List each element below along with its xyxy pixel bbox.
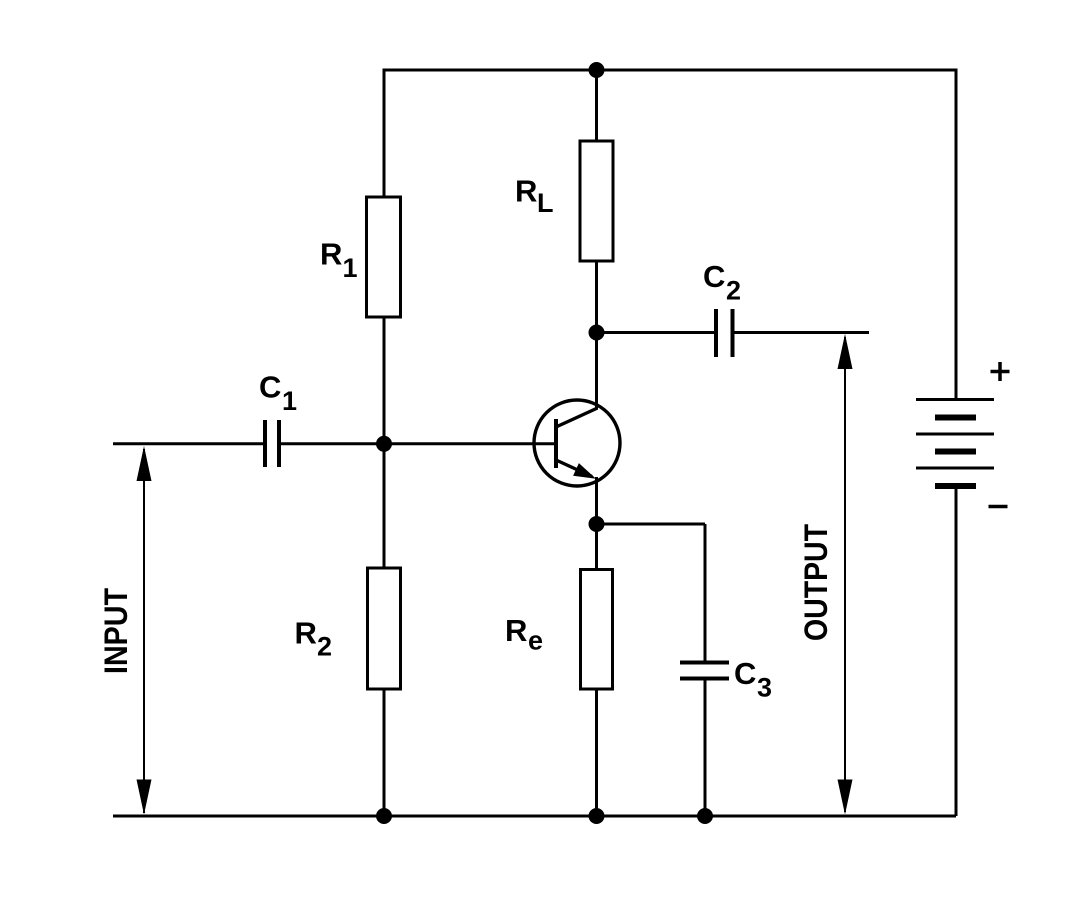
battery plus label [991,362,1010,381]
svg-text:C: C [703,259,725,294]
resistor Re [581,570,613,690]
wire R1 top branch [383,69,386,198]
wire C3 bottom lead [704,679,707,817]
resistor R2 [368,568,401,689]
svg-text:1: 1 [343,253,358,283]
node emitter junction dot [589,516,605,532]
svg-text:INPUT: INPUT [98,588,134,674]
svg-text:R: R [295,616,317,651]
wire C3 top lead [704,524,707,662]
wire output right segment [733,331,870,334]
wire output left segment [597,331,717,334]
wire emitter lead [595,477,598,570]
wire base lead [279,442,557,445]
svg-text:1: 1 [282,386,297,416]
wire input lead [113,442,265,445]
node base junction dot [376,436,392,452]
capacitor C1 [259,370,297,468]
wire R2 bottom lead [383,689,386,816]
battery minus label [989,505,1008,509]
transistor Q1 [534,400,620,486]
node ground junction dot R2 [376,808,392,824]
node ground junction dot C3 [697,808,713,824]
wire RL top branch [595,69,598,142]
svg-text:L: L [537,188,554,218]
svg-text:C: C [734,656,756,691]
wire Re bottom lead [595,689,598,816]
node Vcc junction dot top [589,62,605,78]
svg-text:3: 3 [757,673,772,703]
svg-text:C: C [259,370,281,405]
battery B1 [916,69,994,817]
svg-text:R: R [320,237,342,272]
node collector junction dot [589,325,605,341]
wire collector lead [595,261,598,409]
svg-text:R: R [505,613,527,648]
svg-text:2: 2 [726,276,741,306]
output arrow [798,334,853,815]
wire bottom ground rail [113,815,956,818]
capacitor C3 [680,656,772,703]
node ground junction dot Re [589,808,605,824]
resistor R1 [367,197,401,317]
wire emitter to C3 branch [597,523,706,526]
svg-text:2: 2 [317,632,332,662]
wire R1 bottom to base node [383,317,386,444]
svg-text:R: R [515,174,537,209]
input arrow [98,446,152,815]
capacitor C2 [703,259,741,357]
svg-text:e: e [528,626,543,656]
wire top supply rail [383,69,956,72]
resistor RL [580,141,613,261]
wire R2 top lead [383,444,386,568]
svg-text:OUTPUT: OUTPUT [798,524,834,641]
